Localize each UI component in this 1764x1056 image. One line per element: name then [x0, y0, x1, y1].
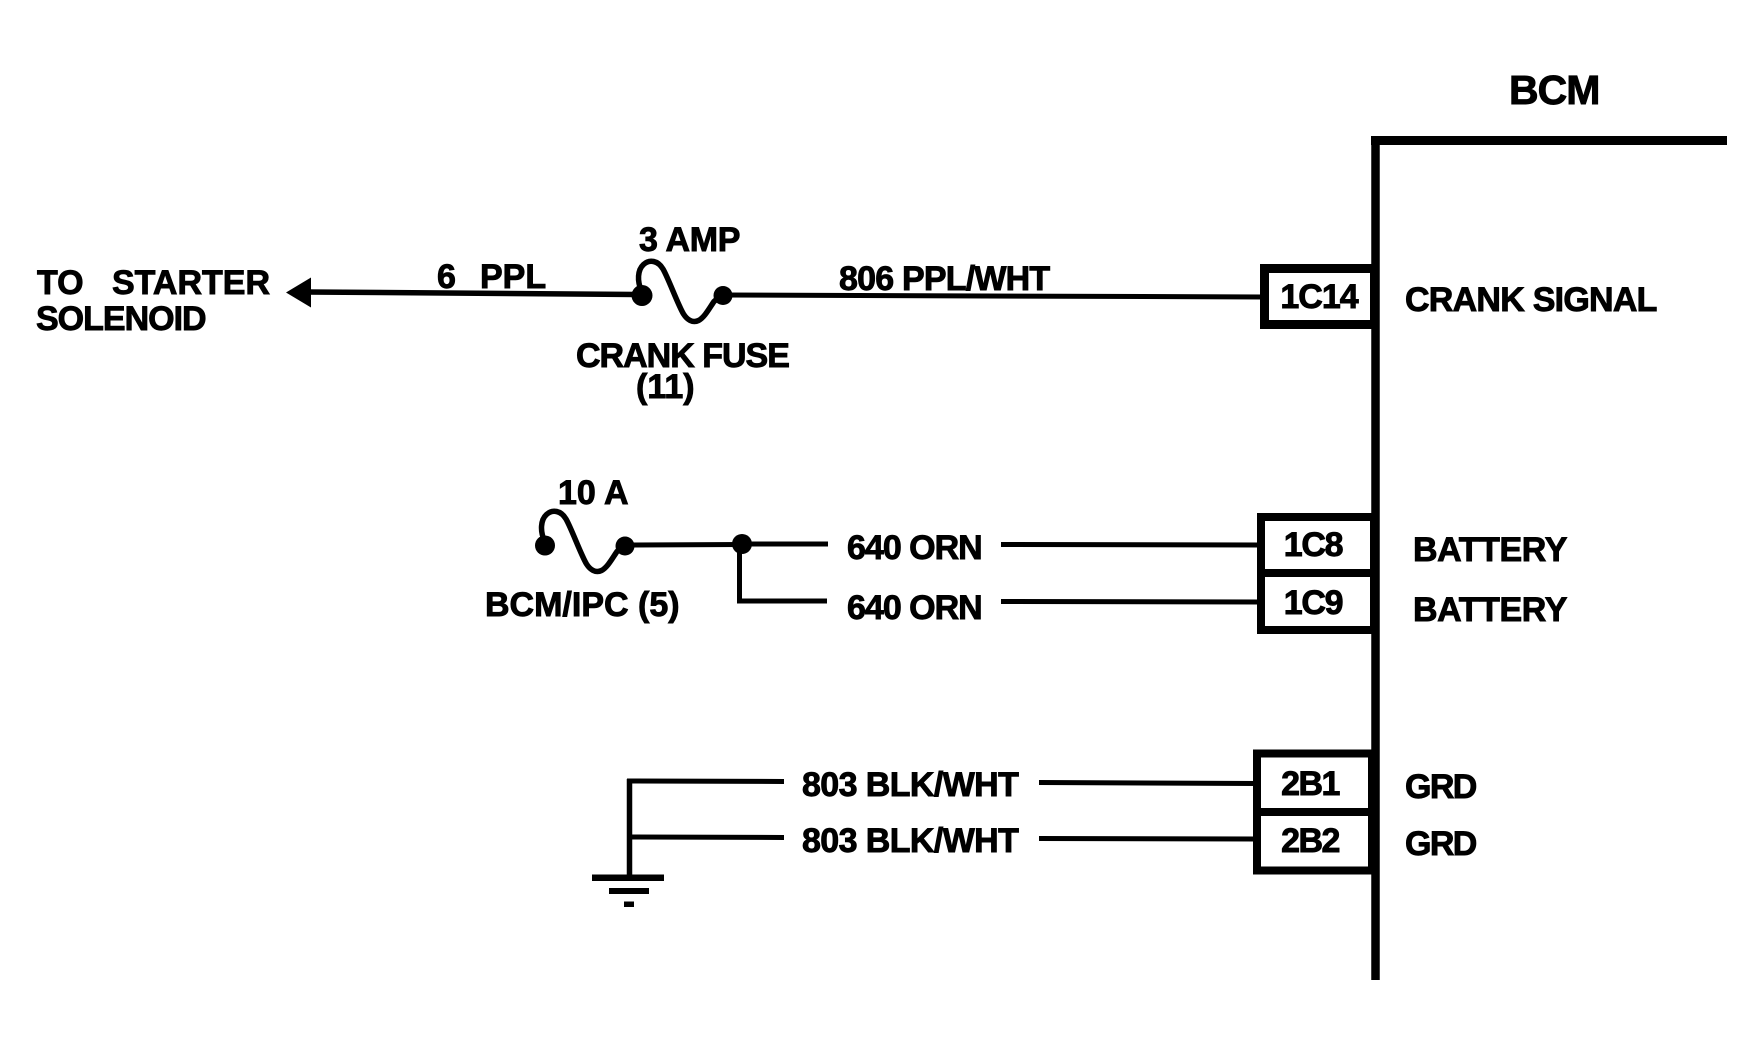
- svg-text:TOSTARTERSOLENOID: TOSTARTERSOLENOID: [36, 264, 270, 338]
- wire 640 ORN upper right segment to 1C8: [1001, 542, 1261, 548]
- svg-text:6PPL: 6PPL: [437, 258, 546, 296]
- svg-text:1C9: 1C9: [1284, 584, 1343, 622]
- svg-text:BCM: BCM: [1509, 67, 1599, 113]
- junction node dot: [732, 534, 752, 554]
- connector terminal 2B1 box: [1257, 754, 1372, 813]
- svg-text:2B1: 2B1: [1281, 765, 1339, 803]
- svg-text:(11): (11): [636, 368, 695, 406]
- svg-text:CRANK SIGNAL: CRANK SIGNAL: [1405, 281, 1657, 319]
- fuse BCM/IPC (5) 10 A: left terminal dot: [535, 536, 555, 556]
- wire 803 BLK/WHT lower right segment to 2B2: [1039, 836, 1257, 842]
- svg-text:640 ORN: 640 ORN: [847, 589, 982, 627]
- wire 806 PPL/WHT (fuse to connector 1C14): [725, 295, 1264, 297]
- connector terminal 1C9 box: [1261, 573, 1374, 630]
- wire 803 BLK/WHT lower left segment: [627, 835, 784, 841]
- fuse right terminal dot: [714, 286, 733, 305]
- wire 6 PPL (arrow to crank fuse): [306, 292, 644, 295]
- svg-text:GRD: GRD: [1405, 825, 1477, 863]
- fuse CRANK FUSE (11) 3 AMP: left terminal dot: [632, 285, 653, 306]
- BCM module boundary top line: [1371, 136, 1727, 145]
- fuse right terminal dot: [616, 537, 635, 556]
- ground symbol bar 3: [624, 902, 634, 908]
- fuse element squiggle: [639, 261, 721, 321]
- wire fuse to junction: [627, 542, 742, 548]
- svg-text:BATTERY: BATTERY: [1413, 531, 1568, 569]
- svg-text:GRD: GRD: [1405, 768, 1477, 806]
- BCM module boundary vertical line: [1371, 136, 1380, 980]
- connector terminal 2B2 box: [1257, 812, 1372, 871]
- wire 640 ORN lower right segment to 1C9: [1001, 599, 1261, 605]
- wire 640 ORN lower left segment: [737, 599, 827, 604]
- svg-text:BCM/IPC (5): BCM/IPC (5): [485, 586, 680, 624]
- svg-text:1C8: 1C8: [1284, 526, 1343, 564]
- fuse element squiggle: [542, 511, 624, 571]
- svg-text:3 AMP: 3 AMP: [639, 221, 740, 259]
- ground riser wire: [627, 779, 633, 878]
- svg-text:2B2: 2B2: [1281, 822, 1339, 860]
- svg-text:1C14: 1C14: [1280, 278, 1358, 316]
- wire 803 BLK/WHT upper right segment to 2B1: [1039, 783, 1257, 784]
- wire 803 BLK/WHT upper left segment: [627, 779, 784, 785]
- svg-text:640 ORN: 640 ORN: [847, 529, 982, 567]
- arrowhead to starter solenoid: [286, 278, 311, 308]
- svg-text:806 PPL/WHT: 806 PPL/WHT: [839, 260, 1050, 298]
- ground symbol bar 2: [609, 888, 649, 894]
- svg-text:10 A: 10 A: [558, 474, 629, 512]
- svg-text:803 BLK/WHT: 803 BLK/WHT: [802, 766, 1019, 804]
- wire junction drop to lower branch: [737, 544, 742, 599]
- svg-text:803 BLK/WHT: 803 BLK/WHT: [802, 822, 1019, 860]
- ground symbol bar 1: [592, 875, 664, 882]
- connector terminal 1C14 box: [1265, 269, 1375, 325]
- svg-text:BATTERY: BATTERY: [1413, 591, 1568, 629]
- connector terminal 1C8 box: [1261, 517, 1374, 573]
- wire 640 ORN upper left segment: [750, 542, 828, 547]
